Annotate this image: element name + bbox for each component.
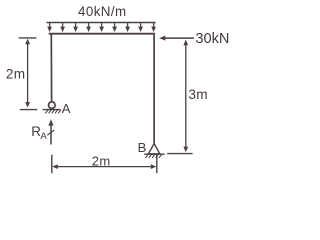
load arrow 4 — [86, 23, 91, 33]
force 30kN arrow — [159, 36, 194, 41]
svg-text:2m: 2m — [92, 153, 111, 168]
dimension 2m bottom: left tick — [51, 155, 53, 174]
svg-text:3m: 3m — [188, 87, 207, 102]
load arrow 9 — [151, 23, 156, 33]
dimension 2m left: bottom tick — [20, 109, 37, 111]
load arrow 2 — [60, 23, 65, 33]
load arrow 1 — [47, 23, 52, 33]
svg-text:A: A — [62, 101, 71, 116]
dimension 3m right: vertical line with arrows — [183, 40, 188, 153]
right column member — [153, 34, 155, 144]
load arrow 3 — [73, 23, 78, 33]
svg-text:40kN/m: 40kN/m — [78, 4, 127, 19]
svg-text:2m: 2m — [6, 67, 25, 82]
left column member — [50, 34, 52, 102]
support B pin triangle — [148, 144, 159, 154]
load arrow 7 — [125, 23, 130, 33]
support A hatching — [45, 110, 61, 114]
dimension 2m left: vertical line with arrows — [25, 39, 30, 108]
support B ground line — [144, 153, 164, 155]
svg-text:B: B — [138, 140, 147, 155]
reaction RA arrow — [47, 119, 54, 144]
dimension 2m left: top tick — [19, 37, 37, 39]
load arrow 5 — [99, 23, 104, 33]
dimension 2m bottom: line with arrows — [52, 164, 156, 169]
support A roller circle — [49, 102, 56, 109]
dimension 2m bottom: right tick — [156, 155, 158, 174]
top beam member — [49, 33, 155, 35]
load arrow 8 — [138, 23, 143, 33]
support B hatching — [145, 154, 161, 158]
dimension 3m right: bottom tick — [167, 153, 192, 155]
svg-text:A: A — [40, 131, 47, 142]
svg-text:30kN: 30kN — [195, 31, 229, 47]
support A ground line — [43, 109, 61, 111]
distributed load top line — [47, 22, 156, 24]
load arrow 6 — [112, 23, 117, 33]
